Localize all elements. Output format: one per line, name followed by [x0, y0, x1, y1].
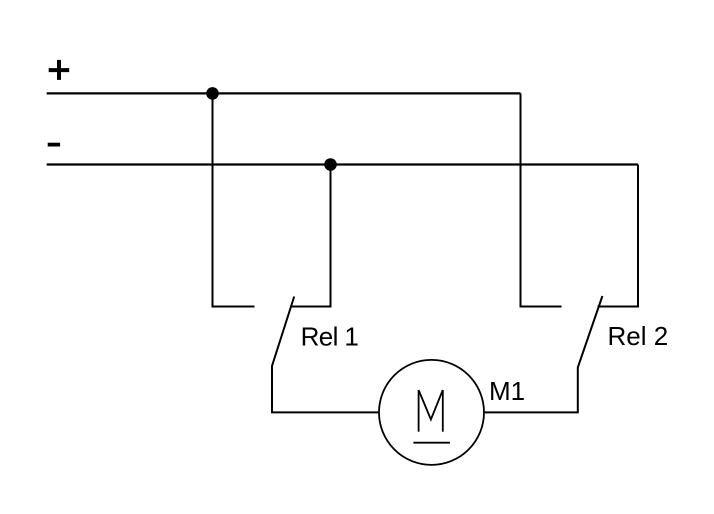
svg-text:Rel 2: Rel 2	[608, 321, 669, 351]
svg-text:M1: M1	[489, 376, 525, 406]
svg-text:Rel 1: Rel 1	[301, 321, 359, 351]
